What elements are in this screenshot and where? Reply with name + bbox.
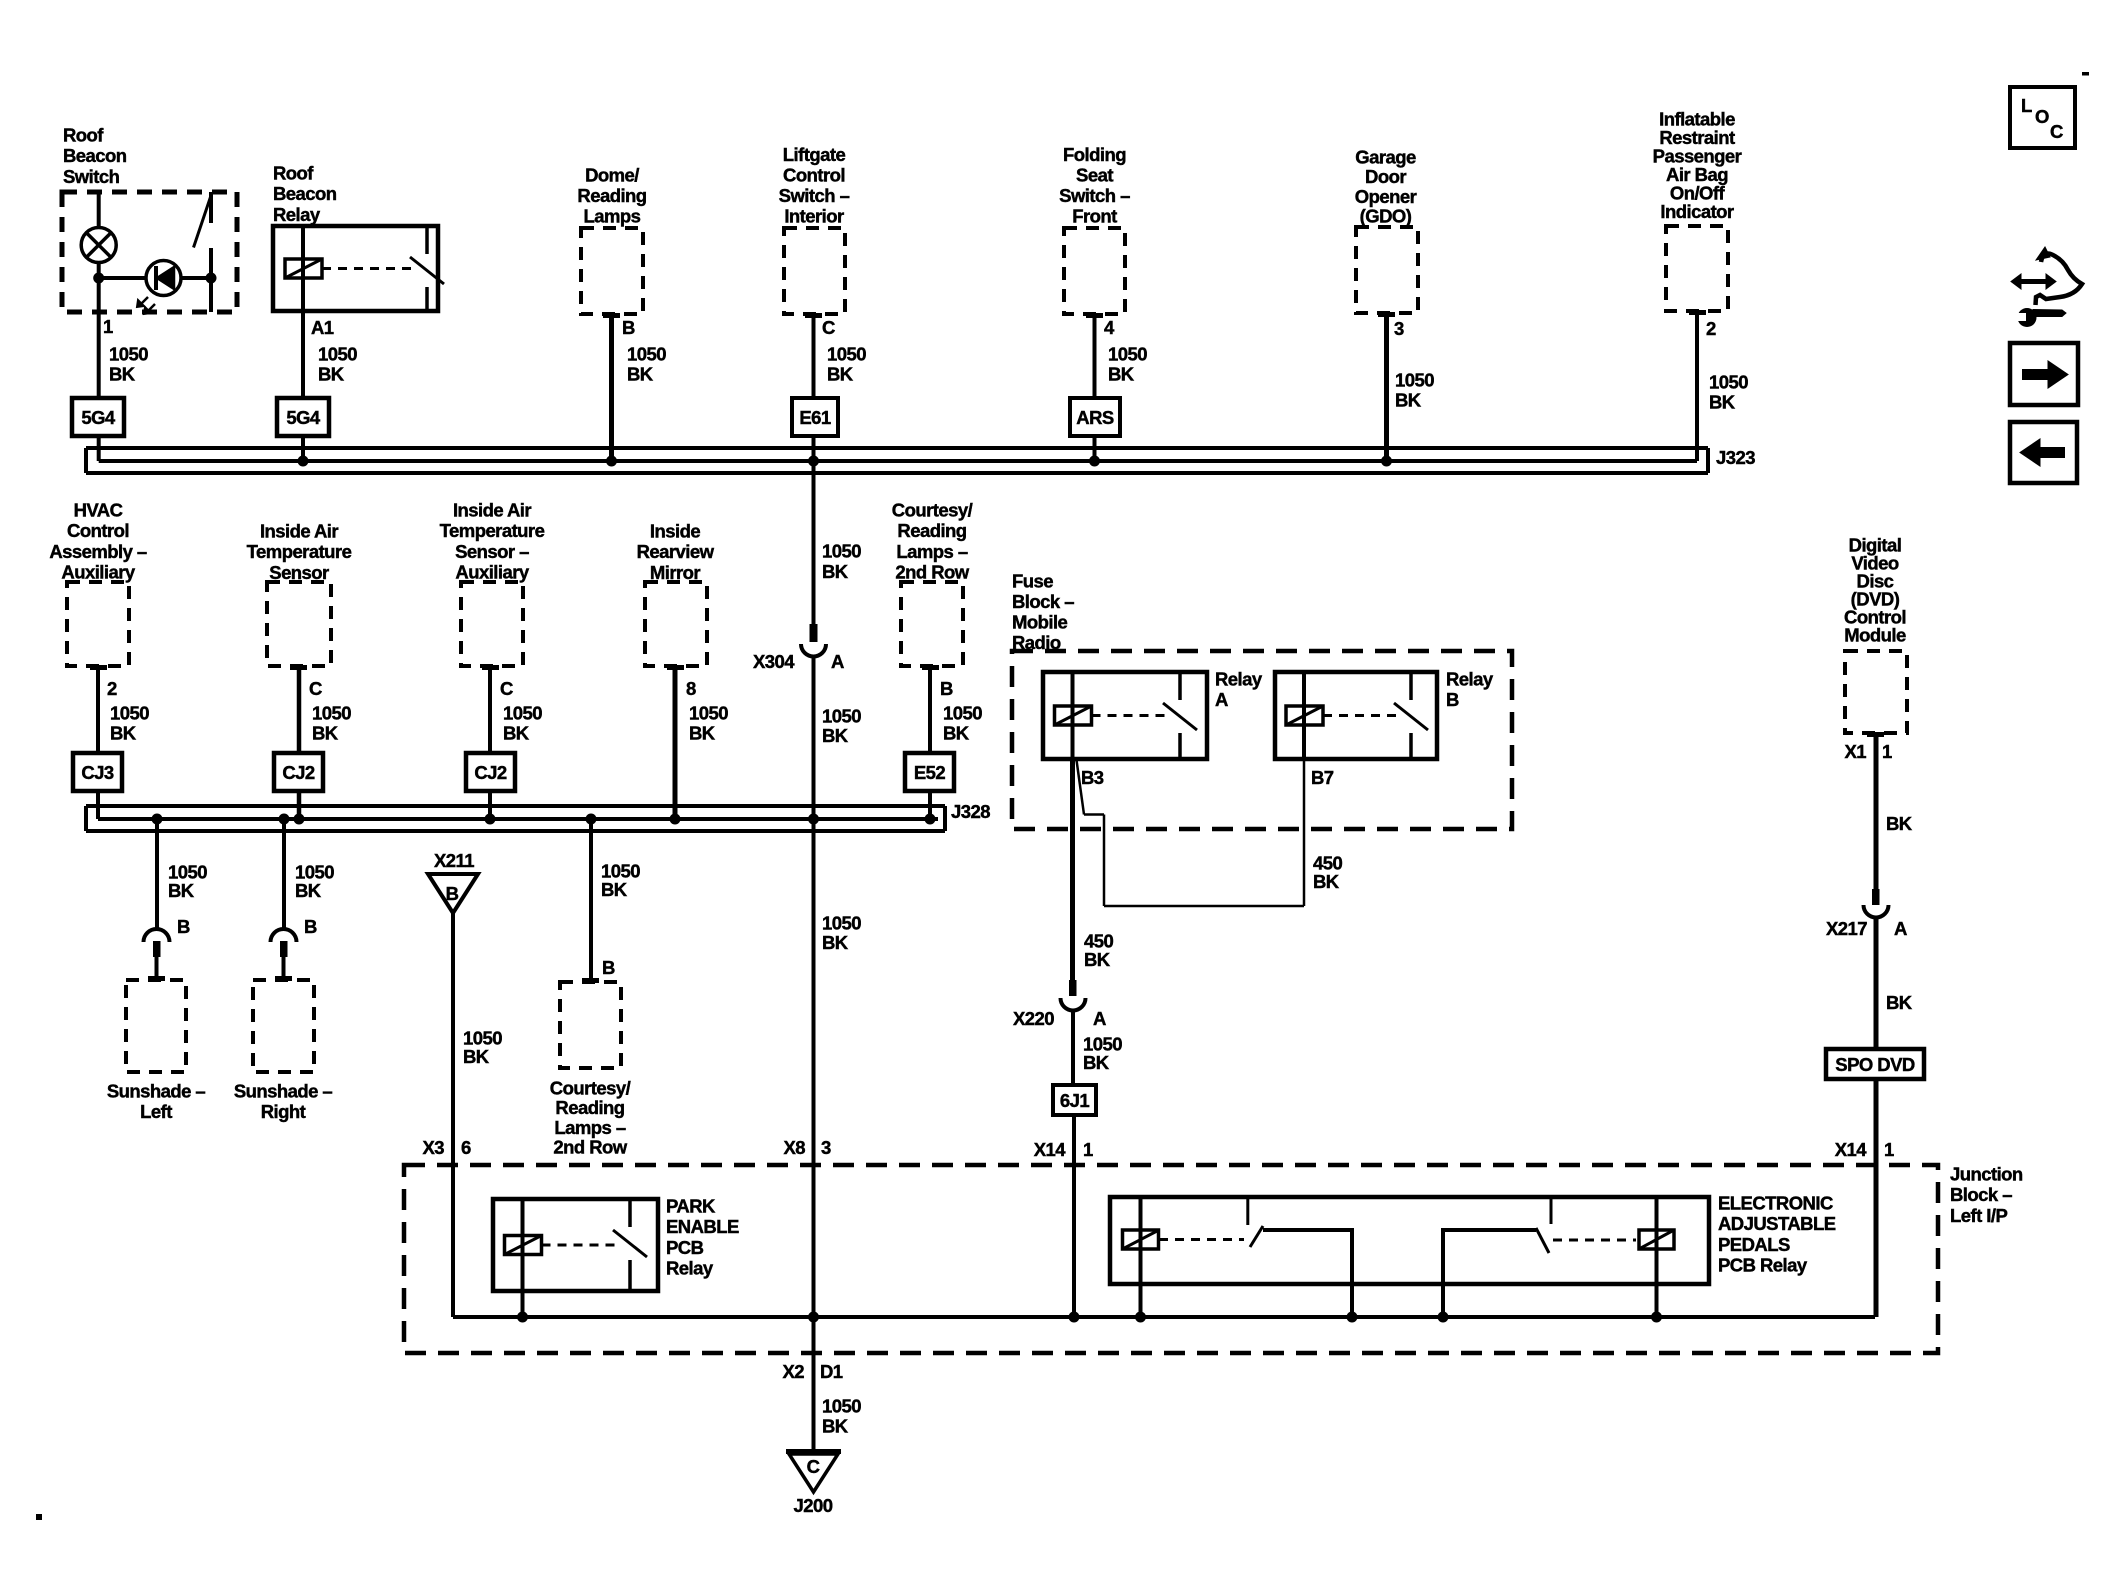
svg-text:BK: BK <box>601 879 628 900</box>
node J328 dot sunshade right <box>279 814 290 825</box>
label Fuse Block Mobile Radio <box>1012 571 1074 654</box>
wire J328 to sunshade right <box>282 819 286 929</box>
svg-text:X1: X1 <box>1844 741 1866 762</box>
liftgate terminal T-bar <box>805 313 822 318</box>
svg-text:BK: BK <box>1886 992 1913 1013</box>
tiny speck bottom left <box>36 1514 42 1520</box>
svg-text:BK: BK <box>1084 949 1111 970</box>
svg-text:Reading: Reading <box>897 520 966 541</box>
LOC letters <box>2021 95 2063 142</box>
svg-text:6: 6 <box>461 1137 471 1158</box>
svg-text:1: 1 <box>1884 1139 1894 1160</box>
label Roof Beacon Switch <box>63 125 127 187</box>
svg-text:Block –: Block – <box>1950 1184 2012 1205</box>
node bus dot X14 left <box>1069 1312 1080 1323</box>
wire label 1050 BK X211 <box>463 1028 502 1068</box>
wire 5G4 to J323 <box>97 436 101 461</box>
svg-text:BK: BK <box>312 723 339 744</box>
svg-text:X220: X220 <box>1013 1008 1054 1029</box>
label Digital Video Disc Control Module <box>1844 535 1906 646</box>
wire label BK upper <box>1886 813 1913 834</box>
label Garage Door Opener <box>1355 147 1417 227</box>
svg-text:CJ2: CJ2 <box>282 762 315 783</box>
svg-text:Module: Module <box>1844 625 1906 646</box>
svg-text:5G4: 5G4 <box>81 407 116 428</box>
DVD terminal T-bar <box>1867 732 1884 737</box>
label Relay B <box>1446 669 1494 711</box>
wire HVAC to CJ3 <box>96 666 100 753</box>
wire E52 to J328 <box>928 791 932 819</box>
svg-text:Inside Air: Inside Air <box>260 521 338 542</box>
pedals relay box <box>1110 1197 1709 1284</box>
switch blade <box>194 197 211 248</box>
IAT aux terminal T-bar <box>482 665 499 670</box>
svg-text:BK: BK <box>822 1416 849 1437</box>
pin C label IAT <box>309 678 322 699</box>
connector sunshade right pin <box>280 941 288 957</box>
svg-text:BK: BK <box>463 1046 490 1067</box>
svg-text:Switch: Switch <box>63 166 120 187</box>
svg-text:1050: 1050 <box>1108 344 1147 365</box>
wire lamp top <box>97 192 101 228</box>
junction block dashed box <box>404 1165 1938 1353</box>
svg-text:HVAC: HVAC <box>74 500 123 521</box>
svg-text:1050: 1050 <box>822 1396 861 1417</box>
wire label 1050 BK col7 <box>1709 372 1748 413</box>
wire E61 to J323 <box>812 436 816 448</box>
svg-text:C: C <box>807 1456 820 1477</box>
pointer icon wrench <box>2012 308 2066 327</box>
node bus dot pedals right coil <box>1651 1312 1662 1323</box>
wire label 1050 BK col5 <box>1108 344 1147 385</box>
IAT terminal T-bar <box>290 665 307 670</box>
svg-text:B7: B7 <box>1311 767 1334 788</box>
wire J328 to sunshade left <box>155 819 159 929</box>
svg-text:Rearview: Rearview <box>637 541 715 562</box>
svg-text:4: 4 <box>1104 317 1115 338</box>
pointer icon part outline <box>2036 247 2083 305</box>
connector X217 socket <box>1864 905 1889 918</box>
wire J328 to junction block X8 <box>812 819 816 1317</box>
node J323 dot col5 <box>1089 456 1100 467</box>
connector CJ2 (sensor) <box>274 753 323 791</box>
svg-text:Temperature: Temperature <box>247 541 352 562</box>
bus J328 outer top <box>86 804 945 808</box>
fuse block dashed box <box>1012 651 1512 829</box>
wire label 1050 BK col2 <box>318 344 357 385</box>
wire label 1050 BK col6 <box>1395 370 1434 411</box>
svg-text:BK: BK <box>318 364 345 385</box>
svg-text:PARK: PARK <box>666 1196 716 1217</box>
ground triangle C <box>786 1452 841 1493</box>
wire J328 to courtesy lower <box>589 819 593 978</box>
wire IAT aux to CJ2 <box>488 666 492 753</box>
node J323 dot col3 <box>606 456 617 467</box>
inside rearview mirror dashed box <box>645 582 707 666</box>
svg-text:3: 3 <box>1394 318 1404 339</box>
wire X217 to SPO DVD <box>1874 916 1879 1049</box>
node J328 dot sunshade left <box>152 814 163 825</box>
wire B3 branch step <box>1084 813 1104 816</box>
node J323 dot col2 <box>298 456 309 467</box>
wire label 1050 BK sunshade right <box>295 862 334 902</box>
IAT auxiliary dashed box <box>461 582 523 666</box>
svg-text:1050: 1050 <box>943 703 982 724</box>
pin 1 label <box>103 316 113 337</box>
inside air temp sensor dashed box <box>267 582 331 666</box>
wire CJ2 to J328 <box>297 791 302 819</box>
svg-text:Relay: Relay <box>1446 669 1494 690</box>
label X211 <box>434 850 474 871</box>
wire relay A B3 drop <box>1070 759 1075 980</box>
svg-text:J323: J323 <box>1716 447 1755 468</box>
svg-text:Auxiliary: Auxiliary <box>61 562 135 583</box>
air bag indicator dashed box <box>1666 226 1728 311</box>
roof beacon switch S1 dashed box <box>62 192 237 312</box>
svg-text:J200: J200 <box>794 1495 833 1516</box>
connector X220 pin <box>1069 980 1077 996</box>
back arrow box <box>2010 422 2077 483</box>
svg-text:X217: X217 <box>1826 918 1867 939</box>
svg-text:1050: 1050 <box>822 706 861 727</box>
label X304 <box>753 651 844 672</box>
wire GDO to J323 <box>1384 313 1389 461</box>
svg-text:ADJUSTABLE: ADJUSTABLE <box>1718 1213 1836 1234</box>
svg-text:1050: 1050 <box>1395 370 1434 391</box>
node J323 dot col4 <box>808 456 819 467</box>
svg-text:ENABLE: ENABLE <box>666 1216 739 1237</box>
svg-text:C: C <box>309 678 322 699</box>
label Inside Air Temperature Sensor Auxiliary <box>440 500 545 583</box>
svg-text:1050: 1050 <box>822 541 861 562</box>
node J328 dot mirror <box>670 814 681 825</box>
DVD control module dashed box <box>1845 651 1907 733</box>
svg-text:Courtesy/: Courtesy/ <box>550 1078 631 1099</box>
wire label 1050 BK courtesy lower <box>601 861 640 901</box>
wire label 1050 BK above X8 <box>822 913 861 954</box>
svg-text:BK: BK <box>822 561 849 582</box>
bus J323 inner wire <box>99 459 1697 463</box>
label Courtesy Reading Lamps 2nd Row upper <box>892 500 973 583</box>
svg-text:ARS: ARS <box>1076 407 1114 428</box>
svg-text:A: A <box>1215 689 1228 710</box>
label ELECTRONIC ADJUSTABLE PEDALS PCB Relay <box>1718 1193 1836 1276</box>
connector E52 <box>905 753 954 791</box>
svg-text:A: A <box>831 651 844 672</box>
connector 5G4 (relay) <box>277 398 329 436</box>
pedals relay left dashed link <box>1159 1238 1244 1241</box>
svg-text:B: B <box>602 957 615 978</box>
svg-text:BK: BK <box>1108 364 1135 385</box>
wire mirror to J328 <box>673 666 678 819</box>
svg-text:Mirror: Mirror <box>650 562 701 583</box>
label Liftgate Control Switch <box>779 144 850 227</box>
svg-text:Sunshade –: Sunshade – <box>107 1081 206 1102</box>
svg-text:6J1: 6J1 <box>1060 1090 1089 1111</box>
svg-text:BK: BK <box>110 723 137 744</box>
svg-text:B: B <box>1446 689 1459 710</box>
wire relay B B7 drop <box>1303 759 1306 906</box>
svg-text:D1: D1 <box>820 1361 843 1382</box>
node J328 dot CJ2 aux <box>485 814 496 825</box>
wire SPO DVD to junction block <box>1874 1079 1879 1317</box>
svg-text:SPO DVD: SPO DVD <box>1835 1054 1915 1075</box>
wire CJ3 to J328 <box>96 791 100 819</box>
pin B3 label <box>1081 767 1104 788</box>
label Courtesy Reading Lamps 2nd Row lower <box>550 1078 631 1158</box>
wire label 1050 BK col3 <box>627 344 666 385</box>
svg-text:1: 1 <box>103 316 113 337</box>
LOC info box <box>2010 87 2075 148</box>
wire DVD to X217 <box>1874 733 1879 889</box>
svg-text:BK: BK <box>295 880 322 901</box>
connector X211 triangle <box>428 874 478 913</box>
svg-text:Inside: Inside <box>650 521 700 542</box>
connector 5G4 (switch) <box>72 398 124 436</box>
sunshade left terminal T-bar <box>148 976 165 981</box>
label B in X211 <box>446 883 459 904</box>
svg-text:1050: 1050 <box>110 703 149 724</box>
pin B label sunshade right <box>304 916 317 937</box>
bus J328 right cap <box>943 806 947 831</box>
wire label BK lower <box>1886 992 1913 1013</box>
svg-text:BK: BK <box>1313 871 1340 892</box>
svg-text:CJ2: CJ2 <box>474 762 507 783</box>
connector CJ3 <box>73 753 122 791</box>
wire X2 to J200 <box>812 1317 816 1449</box>
wire pin to sunshade right box <box>282 957 286 978</box>
label X3 6 <box>422 1137 471 1158</box>
label X1 1 <box>1844 741 1892 762</box>
svg-text:CJ3: CJ3 <box>81 762 114 783</box>
label X14 1 (right) <box>1835 1139 1894 1160</box>
wire label 1050 BK below X304 <box>822 706 861 747</box>
label C in triangle <box>807 1456 820 1477</box>
svg-text:C: C <box>822 317 835 338</box>
label J323 <box>1716 447 1755 468</box>
svg-text:Door: Door <box>1365 166 1406 187</box>
wire label 1050 BK mirror <box>689 703 728 744</box>
wire B3 branch down <box>1103 815 1106 907</box>
wire air bag to J323 <box>1695 311 1699 461</box>
wire lamp bottom <box>97 263 101 313</box>
node bus dot pedals right switch <box>1438 1312 1449 1323</box>
pedals relay left upper stub <box>1246 1197 1249 1225</box>
svg-text:Left I/P: Left I/P <box>1950 1205 2007 1226</box>
svg-text:Relay: Relay <box>1215 669 1263 690</box>
label J328 <box>951 801 990 822</box>
svg-text:E52: E52 <box>914 762 946 783</box>
svg-text:Switch –: Switch – <box>1059 185 1130 206</box>
svg-text:PCB: PCB <box>666 1237 704 1258</box>
wire branch horizontal to B7 <box>1104 905 1304 908</box>
bus J323 right cap <box>1706 448 1710 473</box>
svg-text:X3: X3 <box>422 1137 444 1158</box>
svg-text:BK: BK <box>943 723 970 744</box>
svg-text:PEDALS: PEDALS <box>1718 1234 1790 1255</box>
svg-text:Sunshade –: Sunshade – <box>234 1081 333 1102</box>
wire ARS to J323 <box>1093 436 1097 461</box>
label J200 <box>794 1495 833 1516</box>
svg-text:1050: 1050 <box>827 344 866 365</box>
wire relay to 5G4 <box>301 311 305 398</box>
wire label 1050 BK HVAC <box>110 703 149 744</box>
wire J323 to X304 <box>812 448 816 624</box>
switch lower contact <box>209 248 213 312</box>
svg-text:B: B <box>446 883 459 904</box>
pedals relay right coil wire <box>1655 1197 1659 1317</box>
label Junction Block Left I/P <box>1950 1164 2023 1226</box>
svg-text:Lamps: Lamps <box>584 206 641 227</box>
pin 2 label <box>1706 318 1716 339</box>
sunshade left dashed box <box>126 980 186 1072</box>
svg-text:Courtesy/: Courtesy/ <box>892 500 973 521</box>
svg-text:Auxiliary: Auxiliary <box>455 562 529 583</box>
svg-text:BK: BK <box>1083 1052 1110 1073</box>
label Inside Air Temperature Sensor <box>247 521 352 583</box>
courtesy lamps lower dashed box <box>560 982 621 1068</box>
node J323 dot col6 <box>1381 456 1392 467</box>
pin C label <box>822 317 835 338</box>
GDO terminal T-bar <box>1378 312 1395 317</box>
svg-text:BK: BK <box>822 932 849 953</box>
svg-text:PCB Relay: PCB Relay <box>1718 1255 1808 1276</box>
junction block internal bus <box>453 1315 1875 1319</box>
svg-text:Reading: Reading <box>555 1097 624 1118</box>
connector X217 pin <box>1872 889 1880 905</box>
wire label 1050 BK X2 <box>822 1396 861 1437</box>
wire label 1050 BK col4 <box>827 344 866 385</box>
pedals relay right upper stub <box>1550 1197 1553 1224</box>
svg-text:BK: BK <box>1395 390 1422 411</box>
svg-text:Sensor –: Sensor – <box>455 541 529 562</box>
connector 6J1 <box>1053 1085 1096 1115</box>
bus J323 outer top <box>86 446 1708 450</box>
switch contact upper stub <box>209 192 213 223</box>
HVAC terminal T-bar <box>90 665 107 670</box>
pin 2 label HVAC <box>107 678 117 699</box>
mirror terminal T-bar <box>667 665 684 670</box>
svg-text:BK: BK <box>827 364 854 385</box>
svg-text:Switch –: Switch – <box>779 185 850 206</box>
sunshade right dashed box <box>253 980 314 1072</box>
label Roof Beacon Relay <box>273 163 337 225</box>
wire label 450 BK B7 <box>1313 853 1342 893</box>
svg-text:Reading: Reading <box>577 185 646 206</box>
node junction at switch <box>206 273 217 284</box>
wire label 1050 BK IAT <box>312 703 351 744</box>
svg-text:ELECTRONIC: ELECTRONIC <box>1718 1193 1833 1214</box>
svg-text:Front: Front <box>1072 206 1117 227</box>
svg-text:X304: X304 <box>753 651 795 672</box>
connector E61 <box>792 398 838 436</box>
svg-text:X14: X14 <box>1034 1139 1067 1160</box>
svg-text:X211: X211 <box>434 850 474 871</box>
svg-text:1: 1 <box>1083 1139 1093 1160</box>
wire dome to J323 <box>609 314 614 461</box>
wire label 1050 BK X220 <box>1083 1034 1122 1074</box>
park enable PCB relay <box>493 1199 658 1291</box>
node junction at lamp wire <box>93 273 104 284</box>
connector X304 pin <box>810 624 818 642</box>
label X220 <box>1013 1008 1106 1029</box>
svg-text:2: 2 <box>107 678 117 699</box>
LED D1 symbol <box>137 261 181 315</box>
svg-text:2: 2 <box>1706 318 1716 339</box>
pedals relay right blade <box>1536 1228 1549 1253</box>
connector SPO DVD <box>1826 1049 1924 1079</box>
svg-text:1050: 1050 <box>109 344 148 365</box>
wire liftgate to E61 <box>812 314 816 398</box>
svg-text:X2: X2 <box>782 1361 804 1382</box>
label X14 1 (left) <box>1034 1139 1093 1160</box>
svg-text:BK: BK <box>168 880 195 901</box>
wire LED to switch <box>181 276 211 280</box>
svg-text:BK: BK <box>689 723 716 744</box>
bus J328 left cap <box>84 806 88 831</box>
svg-text:Junction: Junction <box>1950 1164 2023 1185</box>
bus J328 inner wire <box>98 817 938 821</box>
svg-text:BK: BK <box>627 364 654 385</box>
courtesy lower terminal T-bar <box>582 978 599 983</box>
svg-text:Relay: Relay <box>666 1258 714 1279</box>
connector X304 socket <box>801 644 826 657</box>
svg-text:8: 8 <box>686 678 696 699</box>
folding seat switch dashed box <box>1064 228 1125 314</box>
svg-text:B: B <box>177 916 190 937</box>
svg-text:3: 3 <box>821 1137 831 1158</box>
svg-text:Control: Control <box>67 520 129 541</box>
relay B in fuse block <box>1275 672 1437 759</box>
relay A in fuse block <box>1043 672 1207 759</box>
svg-text:C: C <box>2050 121 2063 142</box>
label Relay A <box>1215 669 1263 711</box>
HVAC dashed box <box>67 582 129 666</box>
bus J323 left cap <box>84 448 88 473</box>
svg-text:BK: BK <box>822 725 849 746</box>
wire label 1050 BK col1 <box>109 344 148 385</box>
svg-text:X14: X14 <box>1835 1139 1868 1160</box>
wire horizontal to LED <box>99 276 146 280</box>
svg-text:BK: BK <box>503 723 530 744</box>
wire courtesy to E52 <box>928 666 932 753</box>
svg-text:Lamps –: Lamps – <box>554 1117 625 1138</box>
next arrow <box>2022 361 2068 388</box>
pedals relay right switch output <box>1443 1230 1536 1317</box>
pin B7 label <box>1311 767 1334 788</box>
svg-text:A: A <box>1894 918 1907 939</box>
pedals relay right dashed link <box>1553 1239 1636 1242</box>
pin 4 label <box>1104 317 1115 338</box>
svg-text:1: 1 <box>1882 741 1892 762</box>
label Sunshade Right <box>234 1081 333 1123</box>
svg-text:1050: 1050 <box>318 344 357 365</box>
wire label 1050 BK courtesy <box>943 703 982 744</box>
node J328 dot X304 <box>808 814 819 825</box>
node J328 dot courtesy lower <box>586 814 597 825</box>
svg-text:Right: Right <box>261 1101 306 1122</box>
svg-text:BK: BK <box>109 364 136 385</box>
node bus dot park relay <box>517 1312 528 1323</box>
svg-text:Control: Control <box>783 165 845 186</box>
back arrow <box>2020 439 2065 466</box>
pedals relay left switch output <box>1263 1230 1352 1317</box>
next arrow box <box>2010 343 2078 405</box>
label Folding Seat Switch <box>1059 144 1130 227</box>
svg-text:Liftgate: Liftgate <box>783 144 846 165</box>
node bus dot pedals left coil <box>1135 1312 1146 1323</box>
pin B label courtesy lower <box>602 957 615 978</box>
